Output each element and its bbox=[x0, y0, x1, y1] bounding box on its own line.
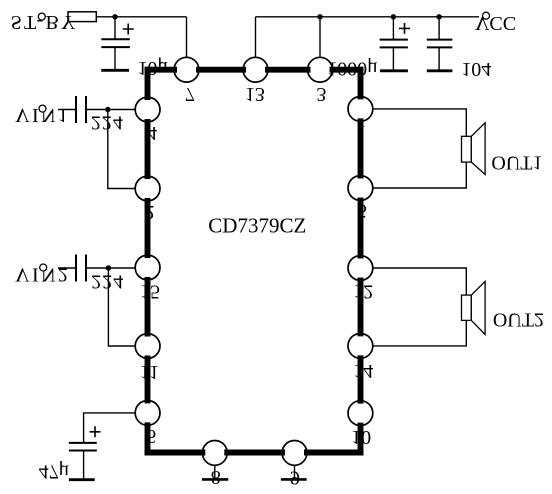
IC U1 body: left edge segments bbox=[145, 67, 151, 456]
wire C4 to pin 4 bbox=[86, 109, 135, 111]
svg-text:VCC: VCC bbox=[475, 12, 516, 34]
speaker LS1 cone bbox=[471, 123, 485, 175]
pin 15 bbox=[135, 255, 160, 280]
wire pin 5 to speaker LS1 bottom bbox=[373, 162, 466, 188]
wire pin 7 riser bbox=[186, 17, 188, 58]
capacitor C1 10u leads bbox=[114, 17, 116, 40]
wire VIN1 to C4 bbox=[58, 109, 76, 111]
svg-text:9: 9 bbox=[290, 467, 300, 489]
ground bar C2 bbox=[380, 69, 408, 72]
pin 8 bbox=[202, 441, 227, 466]
svg-text:224: 224 bbox=[91, 270, 124, 292]
pin 13 bbox=[243, 57, 268, 82]
capacitor C4 224 plates bbox=[75, 96, 77, 123]
node junction ST-BY/C1 bbox=[112, 14, 117, 19]
wire pin 14 to speaker LS2 bottom bbox=[373, 320, 466, 346]
svg-text:1000μ: 1000μ bbox=[327, 58, 378, 80]
speaker LS2 cone bbox=[471, 281, 485, 334]
IC U1 CD7379CZ body: top edge segments bbox=[145, 67, 364, 73]
svg-text:11: 11 bbox=[140, 361, 159, 383]
pin 2 bbox=[135, 176, 160, 201]
svg-text:10μ: 10μ bbox=[137, 57, 168, 79]
svg-text:2: 2 bbox=[145, 201, 155, 223]
terminal circle VCC bbox=[483, 12, 490, 19]
wire pin 13 riser bbox=[255, 17, 257, 58]
svg-text:6: 6 bbox=[146, 425, 156, 447]
svg-text:224: 224 bbox=[91, 112, 124, 134]
C6 polarity plus bbox=[90, 426, 101, 437]
svg-text:13: 13 bbox=[245, 83, 265, 105]
pin 5 bbox=[348, 176, 373, 201]
node junction IN2 bbox=[106, 265, 111, 270]
pin 10 bbox=[348, 401, 373, 426]
svg-text:10: 10 bbox=[351, 426, 371, 448]
svg-text:47μ: 47μ bbox=[39, 461, 70, 483]
terminal circle VIN2 bbox=[40, 264, 47, 271]
wire feedback to pin 11 bbox=[108, 268, 135, 346]
ground pin 8 bar bbox=[202, 478, 228, 481]
wire feedback to pin 2 bbox=[108, 110, 135, 189]
pin 1 bbox=[348, 97, 373, 122]
node junction IN1 bbox=[105, 107, 110, 112]
resistor R1 ST-BY bbox=[68, 12, 96, 22]
terminal circle VIN1 bbox=[39, 105, 46, 112]
ground pin 9 bar bbox=[281, 478, 307, 481]
terminal circle ST-BY bbox=[38, 13, 45, 20]
svg-text:3: 3 bbox=[316, 83, 326, 105]
wire VCC rail bbox=[256, 16, 480, 18]
wire pin 3 riser bbox=[319, 17, 321, 58]
pin 4 bbox=[135, 97, 160, 122]
svg-text:104: 104 bbox=[461, 58, 491, 80]
svg-text:12: 12 bbox=[353, 280, 373, 302]
wire pin 12 to speaker LS2 top bbox=[373, 268, 466, 295]
pin 9 bbox=[282, 441, 307, 466]
capacitor C3 104 leads bbox=[438, 17, 440, 40]
wire ST-BY rail (resistor to pin7 riser) bbox=[96, 16, 186, 18]
svg-text:8: 8 bbox=[211, 466, 221, 488]
speaker LS2 driver bbox=[462, 295, 472, 320]
pin 6 bbox=[135, 401, 160, 426]
wire pin 6 to C6 bbox=[84, 413, 136, 443]
pin 11 bbox=[135, 334, 160, 359]
speaker LS1 driver bbox=[462, 136, 472, 162]
capacitor C6 47u plates bbox=[69, 442, 97, 444]
svg-text:CD7379CZ: CD7379CZ bbox=[208, 214, 306, 238]
ground pin 8 stub bbox=[214, 465, 216, 479]
pin 14 bbox=[348, 334, 373, 359]
node junction pin3 riser bbox=[317, 14, 322, 19]
capacitor C5 224 plates bbox=[75, 255, 77, 282]
IC U1 body: right edge segments bbox=[358, 67, 364, 456]
node junction C3 bbox=[436, 14, 441, 19]
capacitor C3 plates bbox=[427, 39, 453, 41]
svg-text:14: 14 bbox=[353, 360, 373, 382]
ground bar C3 bbox=[427, 69, 453, 72]
svg-text:15: 15 bbox=[140, 281, 160, 303]
pin 12 bbox=[348, 256, 373, 281]
ground pin 9 stub bbox=[294, 465, 296, 479]
capacitor C2 1000u leads bbox=[392, 17, 394, 40]
wire pin 1 to speaker LS1 top bbox=[373, 109, 466, 136]
capacitor C2 plates bbox=[380, 39, 408, 41]
svg-text:4: 4 bbox=[147, 122, 157, 144]
capacitor C1 plates bbox=[101, 38, 130, 40]
node junction C2 bbox=[391, 14, 396, 19]
svg-text:5: 5 bbox=[357, 199, 367, 221]
wire VIN2 to C5 bbox=[58, 267, 76, 269]
C6 lower lead bbox=[83, 451, 85, 480]
svg-text:OUT1: OUT1 bbox=[491, 151, 542, 173]
pin 7 bbox=[174, 57, 199, 82]
svg-text:OUT2: OUT2 bbox=[493, 309, 544, 331]
ground bar C6 bbox=[69, 478, 95, 481]
C1 polarity plus bbox=[123, 24, 134, 35]
svg-text:1: 1 bbox=[356, 121, 366, 143]
pin 3 bbox=[308, 57, 333, 82]
ground bar C1 bbox=[101, 69, 129, 72]
svg-text:7: 7 bbox=[185, 83, 195, 105]
C2 polarity plus bbox=[399, 23, 410, 34]
wire C5 to pin 15 bbox=[86, 267, 135, 269]
IC U1 body: bottom edge segments bbox=[145, 450, 364, 456]
